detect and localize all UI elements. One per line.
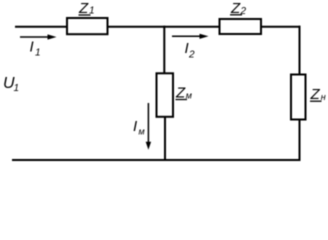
wire W3 from Z2 to top-right corner [261,26,301,28]
arrow I1 current direction [20,34,57,39]
wire W6 middle vertical from node N1 down to ZM [163,26,165,74]
wire W1 top-left from source terminal to Z1 [15,26,67,28]
svg-text:I: I [133,118,137,135]
label ZM value [175,85,192,102]
svg-text:м: м [139,127,145,137]
impedance ZH (load box) [291,75,306,120]
wire W2 between Z1 and Z2 through node N1 [108,26,221,28]
svg-text:2: 2 [188,50,195,61]
arrow I2 current direction [172,34,209,39]
label I1 [30,39,41,59]
wire W8 bottom return conductor [12,159,301,161]
svg-text:I: I [30,39,34,56]
label Z2 value [230,0,247,17]
impedance Z2 (series arm box) [220,19,262,34]
label IM [133,118,145,137]
svg-text:1: 1 [14,83,20,94]
impedance Z1 (series arm box) [67,18,108,34]
wire W4 right vertical down to load ZH [299,26,301,75]
label ZH value [310,86,326,103]
wire W5 below ZH to bottom-right corner [299,119,301,161]
svg-text:н: н [321,92,326,102]
label U1 source voltage [3,75,19,94]
svg-text:1: 1 [35,48,41,59]
impedance ZM (magnetizing shunt box) [157,73,174,117]
arrow IM current direction [146,103,151,150]
label I2 [185,40,196,61]
label Z1 value [78,0,95,17]
svg-text:Z: Z [310,86,321,103]
wire W7 below ZM to bottom return wire [164,117,166,162]
